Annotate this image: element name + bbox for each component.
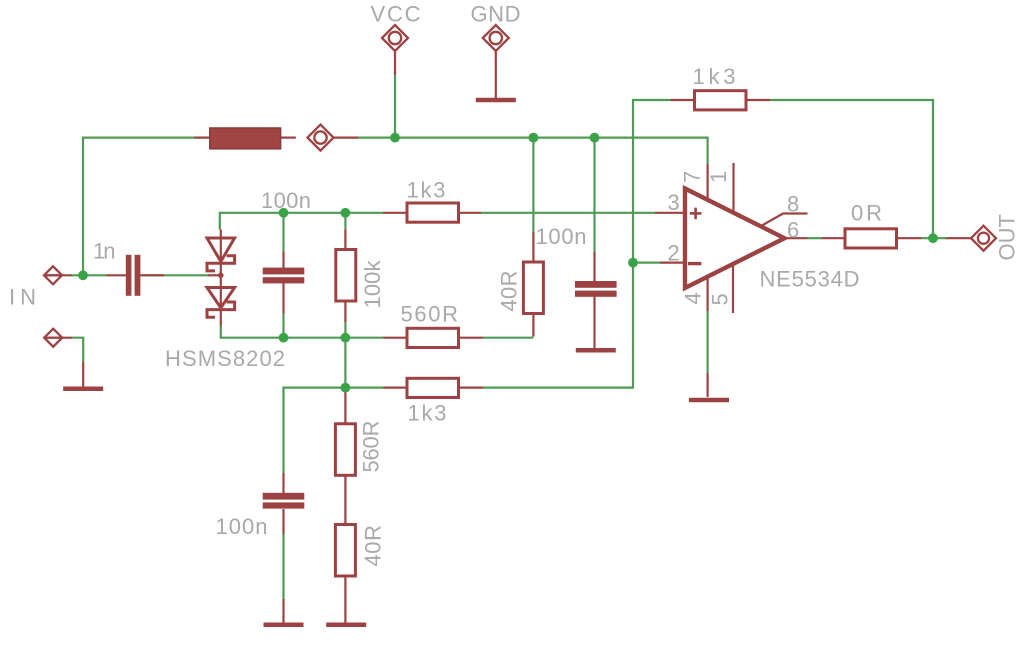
wire feedback top right — [770, 100, 933, 238]
pin stub feedback 1k3 left — [671, 99, 695, 101]
pin stub 100k top — [344, 229, 346, 249]
ground under IN reference pin — [63, 386, 103, 391]
pin stub 1k3 bottom right — [460, 387, 483, 389]
pin stub 560R h left — [384, 337, 408, 339]
wire 100n bottom cap to ground — [282, 534, 284, 599]
pin stub filled resistor left — [194, 137, 210, 139]
filled resistor (input series) — [210, 128, 281, 149]
pin 3 stub — [655, 212, 683, 214]
op-amp U1 NE5534D triangle — [685, 189, 785, 289]
svg-text:7: 7 — [680, 171, 705, 183]
pin stub 1n cap right — [140, 274, 164, 276]
capacitor 100n C4 (bottom) — [263, 493, 305, 509]
pin stub 40R vert top — [532, 232, 534, 262]
wire row E (1k3 bottom net) — [284, 388, 384, 473]
resistor 0R output — [845, 229, 897, 248]
pin symbol OUT — [971, 226, 996, 251]
ground under 40R resistor — [326, 623, 366, 628]
pin stub IN2 diamond — [45, 337, 72, 339]
ground under 100n cap C3 — [576, 348, 616, 353]
pin stub 0R left — [822, 237, 845, 239]
pin stub 560R vert to 40R vert — [344, 475, 346, 525]
svg-text:1: 1 — [706, 171, 731, 183]
pin stub GND symbol — [495, 51, 497, 98]
svg-text:OUT: OUT — [995, 214, 1020, 261]
pin symbol IN — [44, 266, 62, 284]
capacitor 100n C2 (at diodes) — [263, 268, 305, 284]
pin 4 stub — [706, 277, 708, 311]
wire pin 4 to ground — [706, 311, 708, 373]
svg-text:1k3: 1k3 — [408, 400, 447, 425]
wire row B (pin 3 net) — [220, 213, 383, 230]
wire top rail left (net VCC) — [83, 138, 194, 276]
pin stub 1k3 mid left — [383, 212, 407, 214]
wire VCC drop — [394, 75, 396, 138]
resistor 560R vertical — [335, 424, 355, 476]
wire 40R column top — [532, 138, 534, 232]
resistor 40R lower — [335, 525, 355, 577]
svg-text:3: 3 — [668, 190, 680, 215]
op-amp minus marking — [688, 262, 701, 265]
pin 2 stub — [660, 262, 683, 264]
pin stub into diode mid node — [208, 274, 219, 276]
pin 5 stub — [732, 264, 734, 313]
pin stub 40R vert bottom — [532, 314, 534, 337]
resistor 1k3 bottom — [407, 378, 459, 397]
wire inverting column top — [633, 100, 671, 263]
svg-text:100k: 100k — [360, 260, 385, 309]
svg-text:NE5534D: NE5534D — [760, 267, 860, 292]
ground under op-amp pin 4 — [689, 398, 729, 403]
node diode midpoint (red junction) — [218, 273, 224, 279]
pin stub 100n cap b top — [593, 252, 595, 281]
pin stub diode column — [220, 230, 222, 326]
pin 7 stub — [706, 164, 708, 200]
diode D1 (HSMS8202 top) — [207, 238, 235, 271]
pin stub feedback 1k3 right — [747, 99, 770, 101]
pin stub 100n bottom cap bottom — [282, 509, 284, 534]
pin stub 1n cap left — [107, 274, 126, 276]
wire row D to row E link — [344, 338, 346, 390]
wire 100n column top — [593, 138, 595, 252]
resistor 100k — [336, 250, 356, 302]
wire input net segments — [72, 274, 107, 276]
pin stub 0R right — [897, 237, 922, 239]
op-amp plus marking — [690, 208, 702, 220]
svg-text:IN: IN — [9, 285, 36, 310]
svg-text:560R: 560R — [401, 302, 459, 327]
pin stub ground under pin4 — [706, 373, 708, 397]
svg-text:HSMS8202: HSMS8202 — [165, 346, 285, 371]
svg-text:1k3: 1k3 — [407, 178, 446, 203]
svg-text:1k3: 1k3 — [693, 64, 736, 89]
wire pin 2 stub — [633, 262, 660, 264]
wire 0R to OUT — [922, 237, 947, 239]
pin stub 560R h right — [460, 337, 483, 339]
pin 1 stub — [732, 163, 734, 213]
wire pin 6 to 0R — [808, 237, 823, 239]
pin stub ground under 100n bottom cap — [282, 599, 284, 623]
svg-text:100n: 100n — [261, 188, 311, 213]
pin stub OUT diamond — [946, 237, 971, 239]
ground under GND symbol — [476, 98, 516, 103]
pin stub 560R vert top — [344, 390, 346, 424]
pin stub 100n cap a bottom — [282, 283, 284, 314]
pin stub 1k3 mid right — [459, 212, 482, 214]
svg-text:8: 8 — [787, 191, 799, 216]
svg-text:1n: 1n — [93, 238, 116, 263]
pin stub 1k3 bottom left — [384, 387, 408, 389]
pin 6 stub — [785, 237, 808, 239]
resistor 560R horizontal — [407, 328, 459, 347]
pin stub ground under IN2 — [82, 362, 84, 387]
capacitor 1n — [126, 255, 141, 296]
pin stub IN diamond — [45, 274, 72, 276]
svg-text:100n: 100n — [536, 224, 587, 249]
wire IN2 pin to ground — [72, 338, 83, 362]
pin stub 40R vert bottom to ground — [344, 575, 346, 623]
supply symbol VCC — [382, 25, 408, 51]
wire row D (diode bottom net) — [221, 326, 384, 338]
resistor 1k3 input — [407, 203, 459, 222]
ground under 100n cap C4 — [264, 623, 304, 628]
supply symbol mid (VCC tap) — [308, 125, 334, 151]
pin stub 100k bottom — [344, 301, 346, 323]
svg-text:6: 6 — [787, 217, 799, 242]
svg-text:40R: 40R — [497, 271, 522, 312]
pin stub 100n cap b bottom to ground — [593, 297, 595, 349]
svg-text:40R: 40R — [361, 525, 386, 567]
resistor 1k3 feedback — [695, 91, 747, 110]
svg-text:2: 2 — [668, 240, 680, 265]
supply symbol GND — [483, 25, 509, 51]
svg-text:4: 4 — [681, 292, 706, 304]
pin stub 100n cap a top — [282, 252, 284, 269]
pin stub mid supply symbol right — [334, 137, 358, 139]
svg-text:0R: 0R — [851, 201, 882, 226]
diode D2 (HSMS8202 bottom) — [207, 288, 235, 318]
svg-text:5: 5 — [708, 293, 733, 305]
resistor 40R upper — [523, 262, 543, 314]
wire 100n cap a column — [282, 213, 284, 252]
pin symbol IN ground reference — [44, 329, 62, 347]
svg-text:VCC: VCC — [371, 2, 421, 27]
svg-text:560R: 560R — [359, 421, 384, 473]
pin 8 stub — [761, 214, 808, 227]
pin stub VCC symbol — [394, 51, 396, 75]
wire 100k column — [344, 213, 346, 230]
pin stub filled resistor right — [281, 137, 296, 139]
pin stub 100n bottom cap top — [282, 473, 284, 493]
svg-text:GND: GND — [471, 2, 521, 27]
wire top rail right (net VCC) — [358, 138, 708, 164]
svg-text:100n: 100n — [216, 514, 268, 539]
capacitor 100n C3 (at op-amp) — [575, 281, 617, 297]
